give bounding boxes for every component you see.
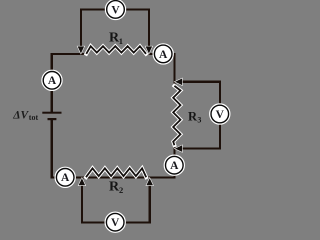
- label ΔVtot: [12, 109, 38, 122]
- arrow: bottom-left probe onto R2 left node: [79, 178, 86, 185]
- wire: top voltmeter left lead (vertical stem at x=80.9): [80, 8, 82, 47]
- battery ΔVtot short plate (-): [48, 118, 57, 120]
- resistor R1 (top zigzag): [86, 46, 146, 54]
- wire: right voltmeter bottom lead (horizontal at y=148.6): [181, 148, 221, 150]
- resistor R3 (right vertical zigzag): [173, 86, 180, 145]
- svg-text:V: V: [216, 109, 225, 121]
- svg-text:3: 3: [197, 116, 201, 125]
- resistor R2 (bottom zigzag): [86, 168, 146, 177]
- svg-text:ΔV: ΔV: [12, 109, 29, 121]
- wire: left vertical upper segment (through ammeter A left, to battery +): [51, 53, 53, 112]
- wire: left vertical lower segment (battery - down to bottom wire): [51, 120, 53, 179]
- ammeter A bottom-left (return branch): [55, 167, 75, 187]
- voltmeter V bottom (across R2): [105, 212, 125, 232]
- voltmeter V right (across R3): [210, 104, 230, 124]
- svg-text:A: A: [61, 172, 70, 184]
- svg-text:A: A: [159, 49, 168, 61]
- wire: top voltmeter horizontal lead: [80, 8, 150, 10]
- wire: right voltmeter vertical lead (x=219.9): [219, 81, 221, 150]
- wire: top horizontal, right segment (R1 to ammeter A top-right): [146, 53, 176, 55]
- wire: bottom voltmeter horizontal lead: [81, 221, 151, 223]
- svg-text:V: V: [111, 217, 120, 229]
- voltmeter V top (across R1): [106, 0, 126, 19]
- label R3: [188, 109, 201, 124]
- ammeter A top-right (after R1): [153, 44, 173, 64]
- label R1: [109, 30, 123, 46]
- wire: top voltmeter right lead (vertical stem at x=148.9): [148, 8, 150, 47]
- arrow: right-bottom probe onto R3 bottom node: [175, 145, 182, 152]
- svg-text:1: 1: [119, 36, 123, 46]
- ammeter A bottom-right (below R3): [164, 155, 184, 175]
- wire: bottom voltmeter left lead (vertical stem at x=81.9): [81, 185, 83, 224]
- svg-text:A: A: [48, 75, 57, 87]
- svg-text:A: A: [170, 160, 179, 172]
- wire: top horizontal, left segment (battery + to R1): [51, 53, 87, 55]
- arrow: top-right probe onto R1 right node: [146, 46, 153, 53]
- label R2: [109, 180, 123, 196]
- arrow: bottom-right probe onto R2 right node: [146, 178, 153, 185]
- wire: bottom horizontal (through ammeter A bottom-left and R2): [51, 176, 176, 178]
- wire: right voltmeter top lead (horizontal at y=81.8): [181, 81, 221, 83]
- arrow: top-left probe onto R1 left node: [78, 46, 85, 53]
- arrow: right-top probe onto R3 top node: [175, 79, 182, 86]
- wire: bottom voltmeter right lead (vertical stem at x=149.7): [149, 185, 151, 224]
- svg-text:tot: tot: [29, 113, 39, 122]
- ammeter A left (main branch): [42, 70, 62, 90]
- wire: right vertical lower segment (R3 down through A to bottom wire): [173, 145, 175, 179]
- battery ΔVtot long plate (+): [42, 112, 61, 114]
- svg-text:V: V: [111, 4, 120, 16]
- wire: right vertical upper segment (A top-right down to R3): [173, 53, 175, 87]
- svg-text:2: 2: [119, 185, 123, 195]
